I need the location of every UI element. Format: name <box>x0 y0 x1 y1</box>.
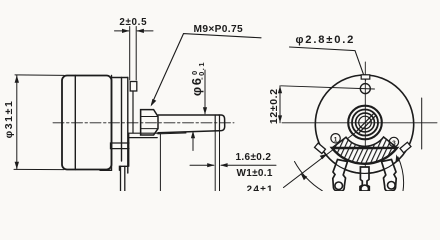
extension lines below bushing <box>159 134 161 191</box>
big circle bottom arc over lugs <box>329 159 400 174</box>
locating tab (left, below bushing) <box>111 143 130 149</box>
front view big circle <box>315 75 413 173</box>
svg-text:2±0.5: 2±0.5 <box>119 17 147 28</box>
svg-text:3: 3 <box>392 140 396 147</box>
phi6 dimension arrows <box>204 70 206 114</box>
svg-text:1.6±0.2: 1.6±0.2 <box>236 152 272 163</box>
circled 1 <box>331 134 340 143</box>
right edge extension line <box>421 98 423 149</box>
phi31 dimension: extension lines <box>15 74 64 77</box>
circled 3 <box>389 137 398 146</box>
svg-text:φ60-0.1: φ60-0.1 <box>189 61 206 96</box>
dimension 2±0.5 arrows <box>115 30 129 32</box>
front plate edge-on <box>112 76 128 174</box>
phi2.8 leader <box>290 47 366 80</box>
locating pin (edge-on) <box>130 82 137 92</box>
case bottom edge to plate <box>100 169 112 171</box>
phi2.8 pin hole <box>360 84 370 94</box>
leader to right tab <box>398 157 404 191</box>
svg-text:12±0.2: 12±0.2 <box>269 88 280 124</box>
vertical centerline <box>364 62 366 178</box>
horizontal centerline <box>282 122 437 124</box>
rotation arc <box>295 162 323 191</box>
threaded bushing <box>141 110 158 135</box>
terminal 2 (center lug) <box>360 167 369 191</box>
terminal 1 (left lug) <box>333 160 348 192</box>
svg-text:W1±0.1: W1±0.1 <box>237 168 273 179</box>
left rim tab <box>315 143 326 153</box>
side view case body <box>62 76 112 170</box>
top rim notch <box>361 75 370 79</box>
terminal 1 hole <box>335 182 343 190</box>
svg-text:1: 1 <box>334 136 338 143</box>
M9 leader line <box>152 34 262 105</box>
extension line through pin hole <box>281 86 375 89</box>
phi31 dimension line with arrows <box>16 75 18 169</box>
shaft slot lines <box>214 115 216 131</box>
bushing flange lines <box>132 91 134 133</box>
concentric shaft circles <box>348 106 382 140</box>
right rim tab <box>400 142 411 152</box>
svg-text:φ31±1: φ31±1 <box>3 100 15 139</box>
case rear cover seam <box>74 76 76 170</box>
12±0.2 dimension line <box>279 86 281 123</box>
shaft <box>158 115 225 133</box>
side view centerline through shaft <box>53 122 234 124</box>
side view terminal going down <box>120 166 122 191</box>
terminal 3 hole <box>388 182 396 190</box>
resistive element hatched band <box>332 137 397 164</box>
svg-text:M9×P0.75: M9×P0.75 <box>194 24 244 35</box>
terminal 3 (right lug) <box>382 160 397 192</box>
dimension 2±0.5 extension lines <box>129 27 131 81</box>
shaft slot (front) <box>357 114 374 131</box>
slot extension lines down <box>214 131 216 191</box>
plate bottom step <box>119 166 127 170</box>
1.6 dimension arrows <box>190 164 214 166</box>
terminal 2 hole (clipped) <box>361 185 369 193</box>
svg-text:φ2.8±0.2: φ2.8±0.2 <box>296 34 356 46</box>
svg-text:24±1: 24±1 <box>247 184 274 191</box>
slot axis leader line <box>284 133 356 188</box>
